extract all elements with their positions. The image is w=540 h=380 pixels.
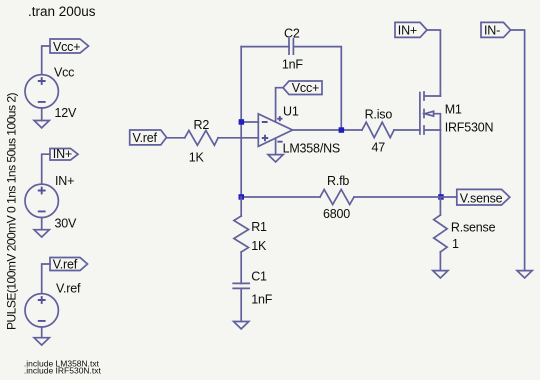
svg-text:R.sense: R.sense — [451, 220, 496, 234]
svg-text:Vcc: Vcc — [54, 66, 74, 80]
wire flag to V3 — [42, 264, 50, 294]
wire V2 to ground — [41, 218, 43, 230]
svg-text:R.iso: R.iso — [365, 107, 393, 121]
svg-text:.include IRF530N.txt: .include IRF530N.txt — [24, 366, 102, 376]
svg-text:V.sense: V.sense — [460, 191, 503, 205]
wire V3 to ground — [41, 327, 43, 338]
svg-text:IN+: IN+ — [55, 174, 74, 188]
wire feedback vertical — [240, 47, 242, 197]
svg-text:12V: 12V — [55, 106, 78, 120]
wire op-amp V- pin to ground — [275, 138, 277, 154]
node junction sense — [438, 194, 444, 200]
svg-text:1nF: 1nF — [251, 292, 273, 306]
svg-text:IN+: IN+ — [398, 23, 417, 37]
voltage source V3 V.ref — [25, 282, 81, 327]
wire IN- down right side — [511, 30, 525, 271]
svg-text:C2: C2 — [284, 27, 300, 41]
ground (IN-) — [517, 271, 532, 278]
flag Vcc+ (source V1) — [50, 39, 89, 54]
wire flag to V1 — [42, 46, 50, 75]
svg-text:1: 1 — [452, 237, 459, 251]
svg-text:PULSE(100mV 200mV 0 1ns 1ns 50: PULSE(100mV 200mV 0 1ns 1ns 50us 100us 2… — [5, 93, 19, 330]
node junction output — [339, 127, 345, 133]
ground (V1) — [34, 121, 49, 128]
wire R.sense to ground — [439, 252, 441, 271]
svg-text:.tran 200us: .tran 200us — [28, 4, 96, 19]
capacitor C2 — [282, 27, 304, 72]
flag Vcc+ (op-amp supply) — [283, 81, 322, 95]
ground (C1) — [234, 322, 249, 329]
svg-text:IRF530N: IRF530N — [445, 120, 494, 134]
flag IN+ (drain) — [395, 22, 427, 37]
ground (V3) — [34, 338, 49, 345]
svg-text:R.fb: R.fb — [327, 174, 349, 188]
svg-text:1K: 1K — [189, 151, 205, 165]
wire Vcc+ flag to op-amp V+ pin — [276, 88, 283, 122]
wire flag to V2 — [42, 154, 50, 184]
wire C2 top left — [241, 46, 289, 48]
svg-text:30V: 30V — [55, 217, 78, 231]
wire R.iso to gate — [394, 129, 420, 131]
capacitor C1 — [233, 270, 273, 307]
node junction feedback — [239, 194, 245, 200]
svg-text:V.ref: V.ref — [133, 131, 158, 145]
flag V.ref (source V3) — [50, 257, 88, 271]
wire op-amp output — [293, 129, 363, 131]
transistor M1 — [420, 92, 494, 134]
wire M1 source down to sense node — [439, 130, 441, 197]
node junction at - input — [239, 119, 245, 125]
svg-text:Vcc+: Vcc+ — [53, 40, 80, 54]
svg-text:V.ref: V.ref — [56, 282, 81, 296]
wire V.ref flag to R2 — [167, 137, 185, 139]
flag V.ref (input to R2) — [130, 130, 167, 145]
voltage source V2 IN+ — [25, 174, 77, 231]
flag IN+ (source V2) — [50, 147, 78, 161]
op-amp U1 — [258, 105, 340, 156]
svg-text:47: 47 — [372, 141, 386, 155]
wire R1 node down — [240, 197, 242, 216]
svg-text:M1: M1 — [445, 102, 462, 116]
svg-text:R1: R1 — [251, 220, 267, 234]
svg-text:V.ref: V.ref — [53, 257, 78, 271]
wire R1 to C1 — [240, 252, 242, 283]
flag IN- — [481, 22, 511, 37]
resistor R.iso — [362, 107, 394, 154]
wire R2 to op-amp + input — [218, 137, 258, 139]
wire drain up to IN+ flag — [427, 30, 440, 96]
resistor R.fb — [320, 174, 354, 221]
svg-text:IN+: IN+ — [53, 147, 72, 161]
svg-text:LM358/NS: LM358/NS — [283, 141, 340, 155]
svg-text:IN-: IN- — [484, 23, 500, 37]
ground (V2) — [34, 230, 49, 237]
resistor R2 — [185, 118, 218, 164]
ground (op-amp) — [268, 155, 283, 162]
flag V.sense — [440, 189, 509, 205]
ground (R.sense) — [433, 271, 448, 278]
voltage source V1 Vcc — [25, 66, 77, 121]
wire to - input — [241, 121, 258, 123]
svg-text:6800: 6800 — [323, 207, 350, 221]
wire R1 node to R.fb — [241, 196, 320, 198]
resistor R.sense — [434, 197, 496, 252]
svg-text:U1: U1 — [283, 105, 299, 119]
svg-text:1nF: 1nF — [282, 58, 304, 72]
resistor R1 — [234, 216, 267, 253]
wire V1 to ground — [41, 108, 43, 121]
svg-text:Vcc+: Vcc+ — [292, 81, 319, 95]
wire R.fb to sense node — [354, 196, 440, 198]
svg-text:R2: R2 — [194, 118, 210, 132]
wire C2 right to output node — [293, 47, 341, 130]
svg-text:1K: 1K — [251, 239, 267, 253]
svg-text:C1: C1 — [251, 270, 267, 284]
wire C1 to ground — [240, 288, 242, 321]
